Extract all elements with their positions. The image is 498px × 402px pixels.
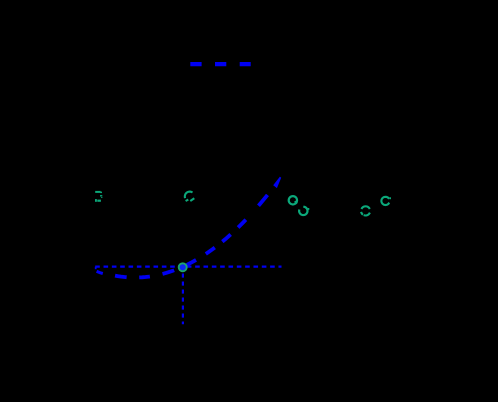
marker point: green ring bbox=[178, 262, 188, 272]
dashed blue curve: lower-left branch bbox=[95, 267, 97, 269]
glyph cluster C4 (broken ring + ring) bbox=[361, 197, 391, 216]
dashed blue curve: rising branch bbox=[184, 186, 275, 266]
curve arrow tip bbox=[273, 177, 281, 189]
legend dashed line sample bbox=[190, 62, 250, 66]
glyph cluster C2 (broken ring) bbox=[185, 192, 194, 201]
glyph cluster C1 (B-like fragments) bbox=[95, 191, 102, 202]
dotted horizontal guide line bbox=[95, 266, 281, 268]
glyph cluster C3 (two rings, percent-like) bbox=[289, 196, 310, 215]
dotted vertical guide line bbox=[182, 274, 184, 325]
marker point: blue center bbox=[180, 264, 186, 270]
